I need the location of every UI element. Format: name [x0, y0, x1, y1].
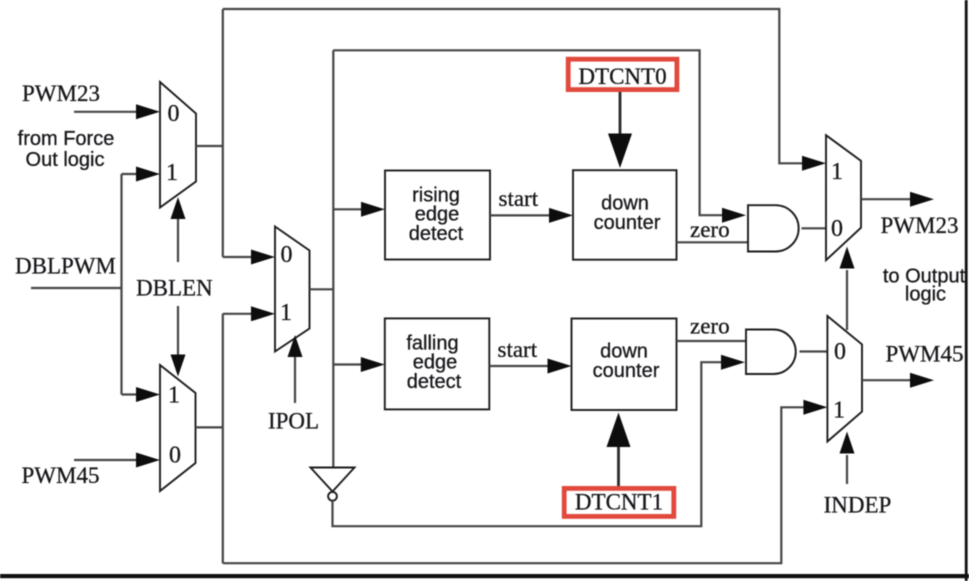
wire top loop to M5 input 1: [223, 9, 804, 163]
svg-text:0: 0: [169, 443, 181, 469]
wire trunk C: [332, 50, 334, 467]
svg-text:INDEP: INDEP: [824, 493, 892, 518]
svg-text:PWM23: PWM23: [22, 81, 100, 106]
svg-text:0: 0: [281, 242, 293, 268]
svg-text:DBLPWM: DBLPWM: [15, 254, 116, 279]
wire trunk C top run to AND U1 input: [333, 50, 724, 215]
svg-text:counter: counter: [594, 212, 661, 234]
select INDEP arrow into M5: [846, 270, 848, 330]
wire branch to falling edge detect: [333, 363, 362, 365]
wire bottom loop to M6 input 1: [223, 407, 805, 563]
wire PWM23 output: [861, 198, 912, 200]
svg-text:PWM45: PWM45: [22, 463, 100, 488]
wire trunk A (M1 out up/down): [222, 9, 224, 257]
svg-text:from Force: from Force: [18, 128, 115, 150]
wire PWM45 input: [74, 459, 138, 461]
wire M1 input 1 (from DBLPWM node): [122, 173, 139, 175]
wire M1 output: [196, 145, 223, 147]
svg-text:1: 1: [831, 159, 843, 185]
mux M1 (top-left, DBLEN): [160, 82, 196, 208]
mux M3 (IPOL): [275, 227, 310, 352]
border right: [965, 0, 968, 581]
wire branch to rising edge detect: [333, 208, 362, 210]
mux M2 (bottom-left, DBLEN): [160, 365, 196, 491]
register DTCNT0 (red box): [566, 57, 680, 92]
svg-text:detect: detect: [407, 371, 462, 393]
wire M2 output: [196, 426, 223, 428]
svg-text:counter: counter: [593, 360, 660, 382]
box falling edge detect: [385, 318, 490, 409]
wire trunk B into M3 input 1: [223, 313, 253, 315]
select DBLEN down-arrow into M2: [177, 306, 179, 355]
wire PWM45 output: [862, 379, 912, 381]
svg-text:1: 1: [166, 160, 178, 186]
box down counter 1: [573, 170, 677, 260]
svg-text:0: 0: [834, 339, 846, 365]
AND gate U1: [748, 205, 799, 251]
select INDEP arrow into M6: [846, 455, 848, 484]
svg-text:0: 0: [831, 216, 843, 242]
svg-text:1: 1: [833, 398, 845, 424]
svg-text:logic: logic: [905, 284, 946, 306]
box down counter 2: [572, 319, 677, 411]
wire U1 output to M5 input 0: [802, 227, 827, 229]
wire M2 input 1 (from DBLPWM node): [122, 393, 139, 395]
svg-text:1: 1: [280, 300, 292, 326]
border bottom: [0, 574, 969, 578]
wire start (top): [490, 214, 550, 216]
svg-text:start: start: [498, 337, 538, 362]
wire start (bottom): [489, 365, 549, 367]
wire M3 output: [310, 288, 334, 290]
svg-text:PWM23: PWM23: [881, 213, 959, 238]
mux M5 (top-right, INDEP): [826, 135, 861, 260]
svg-text:0: 0: [168, 101, 180, 127]
svg-text:start: start: [499, 186, 539, 211]
select IPOL arrow into M3: [294, 356, 296, 403]
svg-text:zero: zero: [690, 217, 730, 242]
svg-text:DBLEN: DBLEN: [136, 276, 213, 301]
wire DBLPWM input: [31, 287, 122, 289]
wire zero (top): [677, 241, 749, 243]
register DTCNT1 (red box): [562, 486, 676, 519]
box rising edge detect: [385, 171, 490, 260]
node DBLPWM vertical: [120, 174, 122, 395]
wire zero (bottom): [677, 340, 747, 342]
inverter U3 bubble: [328, 492, 337, 501]
AND gate U2: [746, 330, 796, 375]
mux M6 (bottom-right, INDEP): [827, 316, 862, 442]
svg-text:1: 1: [168, 383, 180, 409]
wire trunk B: [222, 314, 224, 563]
select DBLEN up-arrow into M1: [177, 218, 179, 262]
wire U2 output to M6 input 0: [800, 350, 828, 352]
wire DTCNT1 into down counter 2: [617, 447, 620, 486]
svg-text:Out logic: Out logic: [26, 149, 105, 171]
wire trunk A into M3 input 0: [223, 256, 253, 258]
svg-text:DTCNT0: DTCNT0: [578, 64, 666, 89]
svg-text:IPOL: IPOL: [268, 408, 319, 433]
wire DTCNT0 into down counter 1: [619, 92, 622, 136]
inverter U3: [311, 468, 355, 492]
wire inverter feedback to AND U2 input: [333, 362, 724, 526]
wire PWM23 input: [74, 111, 138, 113]
svg-text:DTCNT1: DTCNT1: [575, 490, 663, 515]
svg-text:detect: detect: [409, 223, 464, 245]
svg-text:PWM45: PWM45: [886, 342, 964, 367]
svg-text:zero: zero: [690, 313, 730, 338]
